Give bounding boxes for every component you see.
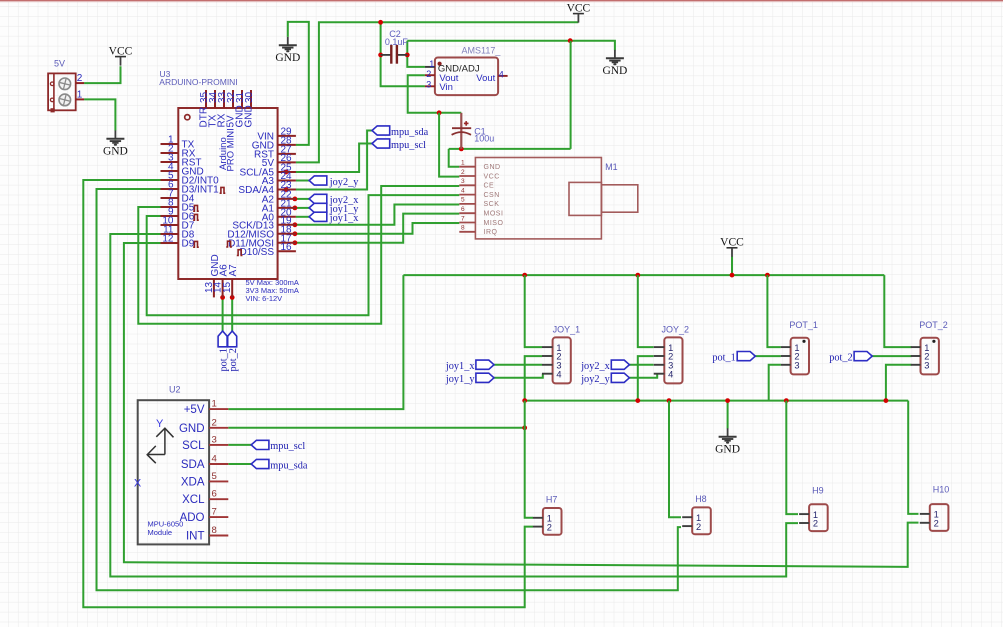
power flag VCC at 5V input	[109, 45, 133, 65]
wire GND rail to ground symbol	[727, 401, 729, 429]
junction C2 left plate	[378, 53, 383, 58]
wire U3 GND pin28 to ground	[288, 22, 309, 145]
svg-text:M1: M1	[605, 162, 618, 172]
svg-text:4: 4	[556, 369, 561, 379]
svg-text:XDA: XDA	[181, 476, 205, 488]
wire up to GND rail	[570, 41, 572, 149]
connector POT_1	[781, 320, 818, 374]
svg-text:SCK: SCK	[484, 201, 500, 208]
wire 5V pin2 to VCC	[84, 66, 120, 83]
svg-text:mpu_scl: mpu_scl	[270, 441, 305, 452]
ground for AMS117 rail	[602, 50, 627, 77]
svg-text:POT_2: POT_2	[919, 320, 948, 330]
svg-text:2: 2	[934, 519, 939, 529]
wire U3 D8 to H9 pin2	[110, 234, 798, 577]
junction GND rail H8	[667, 398, 672, 403]
net label pot_1 flag (U3)	[218, 331, 227, 347]
svg-text:PRO MINI: PRO MINI	[226, 128, 237, 171]
junction VCC symbol	[730, 273, 735, 278]
wire U3 D3/INT1 to H8 pin2	[97, 189, 682, 590]
svg-text:5V: 5V	[54, 59, 65, 69]
svg-text:POT_1: POT_1	[789, 320, 818, 330]
svg-text:H8: H8	[695, 494, 707, 504]
wire GND to H10 pin1	[908, 401, 918, 514]
wire POT_2 pin3 to GND rail	[886, 365, 912, 401]
svg-text:GND: GND	[275, 52, 300, 64]
connector POT_2	[911, 320, 948, 374]
junction pin18	[293, 231, 298, 236]
svg-text:4: 4	[212, 454, 217, 465]
svg-text:1: 1	[212, 399, 217, 410]
net label joy2_y flag (JOY_2)	[611, 373, 629, 382]
svg-text:mpu_sda: mpu_sda	[391, 127, 429, 138]
wire JOY_1 pin1 to VCC rail	[525, 275, 542, 347]
wire U3 SCK/D13 to M1 SCK	[295, 205, 459, 225]
svg-text:CSN: CSN	[484, 192, 500, 199]
ground below 5V input	[103, 130, 128, 157]
svg-text:MISO: MISO	[484, 220, 504, 227]
svg-text:JOY_2: JOY_2	[662, 324, 690, 334]
svg-text:1: 1	[461, 160, 465, 167]
ground below GND rail	[715, 428, 740, 455]
wire POT_1 pin3 to GND rail	[769, 365, 781, 401]
junction pin19	[293, 222, 298, 227]
wire pot_1 flag to POT_1 pin2	[755, 355, 781, 357]
junction GND rail POT_2	[884, 398, 889, 403]
wire C1- ground run	[449, 148, 571, 150]
net label joy2_y flag (U3)	[309, 176, 327, 185]
wire VCC symbol stub	[731, 257, 733, 276]
svg-text:VCC: VCC	[720, 237, 744, 249]
wire U3 D12/MISO to M1 MISO	[295, 223, 459, 234]
wire GND to H7 pin1	[525, 401, 533, 518]
svg-text:2: 2	[547, 522, 552, 532]
svg-text:Y: Y	[156, 418, 164, 430]
wire joy2_y flag to JOY_2 pin4	[629, 374, 657, 378]
svg-text:AMS117_: AMS117_	[462, 46, 502, 56]
net label joy1_x flag (JOY_1)	[476, 360, 494, 369]
wire AMS Vout to C1+	[408, 75, 462, 113]
svg-text:Vin: Vin	[439, 82, 453, 93]
svg-text:1: 1	[429, 59, 434, 69]
module U2 MPU-6050	[134, 385, 228, 545]
svg-text:Module: Module	[148, 528, 173, 537]
junction pin22	[293, 197, 298, 202]
svg-text:GND: GND	[103, 145, 128, 157]
svg-text:7: 7	[461, 215, 465, 222]
wire VCC rail down to U2 +5V	[228, 275, 403, 409]
svg-text:joy1_x: joy1_x	[329, 213, 359, 224]
junction pin25	[284, 170, 289, 175]
wire U3 D9 to H10 pin2	[124, 243, 919, 567]
svg-text:6: 6	[212, 489, 217, 500]
svg-text:joy2_y: joy2_y	[580, 374, 610, 385]
svg-text:2: 2	[813, 519, 818, 529]
svg-text:GND: GND	[484, 164, 501, 171]
svg-text:U2: U2	[169, 385, 181, 395]
svg-text:3: 3	[924, 361, 929, 371]
junction pin23	[284, 187, 289, 192]
svg-text:2: 2	[426, 69, 431, 79]
svg-text:8: 8	[212, 525, 217, 536]
svg-text:SDA: SDA	[181, 459, 205, 471]
svg-text:A7: A7	[228, 264, 239, 277]
junction VCC rail / C2 branch	[378, 20, 383, 25]
svg-text:H10: H10	[933, 485, 950, 495]
svg-text:4: 4	[461, 187, 465, 194]
net label joy1_x flag (U3)	[309, 212, 327, 221]
net label pot_1 flag (POT_1)	[737, 352, 755, 361]
net label mpu_scl flag (top)	[372, 139, 390, 148]
svg-text:pot_2: pot_2	[228, 348, 239, 371]
svg-text:2: 2	[77, 73, 83, 84]
wire C2 right / GND-ADJ	[407, 41, 425, 67]
net label mpu_scl flag (U2)	[251, 440, 269, 449]
junction GND rail JOY_1	[522, 398, 527, 403]
svg-text:H9: H9	[812, 486, 824, 496]
connector JOY_1	[542, 324, 580, 383]
net label joy1_y flag (U3)	[309, 203, 327, 212]
connector X1 5V terminal block	[48, 59, 84, 113]
junction GND rail JOY_2	[635, 398, 640, 403]
svg-text:3: 3	[426, 79, 431, 89]
header H9	[799, 486, 828, 532]
svg-text:GND: GND	[602, 65, 627, 77]
capacitor C1 100u	[452, 113, 495, 149]
svg-text:15: 15	[222, 281, 233, 293]
header H8	[682, 494, 711, 534]
svg-text:+5V: +5V	[184, 404, 205, 416]
svg-text:1: 1	[77, 90, 83, 101]
wire VCC rail to POT_2 pin1	[884, 275, 911, 347]
wire VCC rail to joysticks and pots	[403, 274, 884, 276]
svg-text:joy2_x: joy2_x	[580, 361, 610, 372]
wire U3 D6 to M1 CSN	[147, 195, 460, 315]
svg-text:GND: GND	[244, 105, 255, 127]
wire JOY_2 pin1 to VCC rail	[638, 275, 654, 347]
svg-text:mpu_sda: mpu_sda	[270, 460, 308, 471]
wire U3 A2 to joy2_x flag	[295, 198, 309, 200]
svg-text:pot_2: pot_2	[829, 352, 852, 363]
connector JOY_2	[654, 324, 689, 383]
svg-text:Vout: Vout	[476, 73, 495, 84]
svg-text:CE: CE	[484, 183, 495, 190]
svg-text:3: 3	[212, 434, 217, 445]
svg-text:INT: INT	[186, 531, 205, 543]
wire pot_2 flag to POT_2 pin2	[872, 355, 911, 357]
svg-text:D9: D9	[182, 239, 195, 250]
wire joy1_y flag to JOY_1 pin4	[494, 374, 543, 378]
wire 5V pin1 to ground	[84, 99, 115, 130]
net label mpu_sda flag (top)	[372, 126, 390, 135]
wire down to M1 GND pin	[449, 149, 460, 167]
junction pin21	[293, 206, 298, 211]
svg-text:mpu_scl: mpu_scl	[391, 140, 426, 151]
wire VCC rail down to AMS Vin	[381, 22, 425, 86]
svg-text:7: 7	[212, 507, 217, 518]
svg-text:4: 4	[668, 369, 673, 379]
junction C2 right plate	[405, 53, 410, 58]
junction Vout / M1 VCC branch	[437, 110, 442, 115]
net label joy2_x flag (U3)	[309, 194, 327, 203]
wire U3 D2/INT0 to H7 pin2	[83, 180, 533, 607]
svg-text:0.1uF: 0.1uF	[385, 37, 409, 47]
header H10	[920, 485, 950, 531]
wire U3 A6 to pot_1 flag	[222, 297, 224, 331]
ground for U3 pin28	[275, 37, 300, 64]
wire U2 GND to GND net	[228, 427, 524, 429]
svg-text:12: 12	[162, 234, 174, 245]
module M1 NRF24 radio	[459, 158, 638, 239]
wire GND rail to ground symbol	[407, 41, 615, 51]
wire JOY_2 pin2 to GND rail	[638, 356, 654, 401]
svg-text:8: 8	[461, 225, 465, 232]
svg-text:D10/SS: D10/SS	[240, 247, 275, 258]
svg-text:3: 3	[794, 361, 799, 371]
svg-text:VCC: VCC	[109, 45, 133, 57]
svg-text:H7: H7	[546, 495, 558, 505]
junction JOY_1 vcc	[522, 273, 527, 278]
svg-text:joy2_y: joy2_y	[329, 177, 359, 188]
svg-text:JOY_1: JOY_1	[553, 324, 581, 334]
junction pin17	[293, 240, 298, 245]
svg-text:MOSI: MOSI	[484, 211, 504, 218]
wire POT_1 pin1 to VCC rail	[767, 275, 781, 347]
wire U3 A3 to joy2_y flag	[296, 180, 309, 182]
junction GND rail ground	[725, 398, 730, 403]
svg-text:2: 2	[696, 522, 701, 532]
net label pot_2 flag (POT_2)	[854, 352, 872, 361]
svg-text:6: 6	[461, 206, 465, 213]
svg-text:3: 3	[461, 178, 465, 185]
junction C1 negative lead	[459, 147, 464, 152]
wire GND to H8 pin1	[669, 401, 681, 518]
wire U3 A1 to joy1_y flag	[295, 207, 309, 209]
svg-text:5: 5	[212, 471, 217, 482]
svg-text:16: 16	[280, 242, 292, 253]
net label mpu_sda flag (U2)	[251, 459, 269, 468]
svg-text:5: 5	[461, 197, 465, 204]
wire Vout down to M1 VCC	[439, 113, 459, 177]
wire joy1_x flag to JOY_1 pin3	[494, 364, 542, 366]
power flag VCC top	[567, 2, 591, 22]
header H7	[533, 495, 562, 535]
svg-text:ARDUINO-PROMINI: ARDUINO-PROMINI	[159, 77, 237, 87]
capacitor C2 0.1uF	[381, 29, 409, 64]
wire U3 D11/MOSI to M1 MOSI	[295, 214, 459, 243]
net label pot_2 flag (U3)	[228, 331, 237, 347]
wire GND to H9 pin1	[786, 401, 798, 514]
wire U3 A0 to joy1_x flag	[296, 216, 309, 218]
svg-text:IRQ: IRQ	[484, 229, 498, 236]
svg-text:4: 4	[499, 69, 504, 79]
IC U3 ARDUINO-PROMINI	[159, 69, 299, 303]
wire U3 D5 to M1 CE	[138, 186, 459, 324]
svg-text:2: 2	[212, 417, 217, 428]
wire GND rail	[525, 400, 909, 402]
svg-text:VIN: 6-12V: VIN: 6-12V	[246, 294, 283, 303]
svg-text:GND: GND	[179, 423, 205, 435]
junction pin15	[230, 295, 235, 300]
junction U2 GND / H7 feed	[522, 425, 527, 430]
junction pin14	[220, 295, 225, 300]
svg-text:X: X	[134, 478, 142, 490]
net label joy1_y flag (JOY_1)	[476, 373, 494, 382]
svg-text:GND: GND	[715, 443, 740, 455]
junction GND rail H9	[784, 398, 789, 403]
svg-text:VCC: VCC	[567, 2, 591, 14]
wire U3 SDA/A4 to mpu_sda flag	[286, 131, 372, 190]
svg-text:VCC: VCC	[484, 173, 500, 180]
junction GND rail / C1 branch	[568, 38, 573, 43]
wire U2 SDA to mpu_sda flag	[228, 463, 251, 465]
junction POT_1 vcc	[765, 273, 770, 278]
svg-text:pot_1: pot_1	[712, 352, 735, 363]
wire joy2_x flag to JOY_2 pin3	[629, 364, 653, 366]
wire JOY_1 pin2 to GND rail	[525, 356, 542, 401]
svg-text:100u: 100u	[474, 133, 494, 143]
svg-text:joy1_y: joy1_y	[445, 374, 475, 385]
svg-text:SCL: SCL	[182, 440, 205, 452]
svg-text:XCL: XCL	[182, 494, 205, 506]
wire 5V pin26 to VCC rail	[296, 22, 579, 162]
wire U3 A7 to pot_2 flag	[231, 297, 233, 331]
svg-text:30: 30	[244, 91, 255, 103]
junction JOY_2 vcc	[635, 273, 640, 278]
net label joy2_x flag (JOY_2)	[611, 360, 629, 369]
regulator U1 AMS117	[425, 46, 508, 96]
wire U3 SCL/A5 to mpu_scl flag	[286, 144, 372, 173]
wire U2 SCL to mpu_scl flag	[228, 444, 251, 446]
svg-text:joy1_x: joy1_x	[445, 361, 475, 372]
power flag VCC above rail	[720, 237, 744, 257]
svg-text:2: 2	[461, 169, 465, 176]
